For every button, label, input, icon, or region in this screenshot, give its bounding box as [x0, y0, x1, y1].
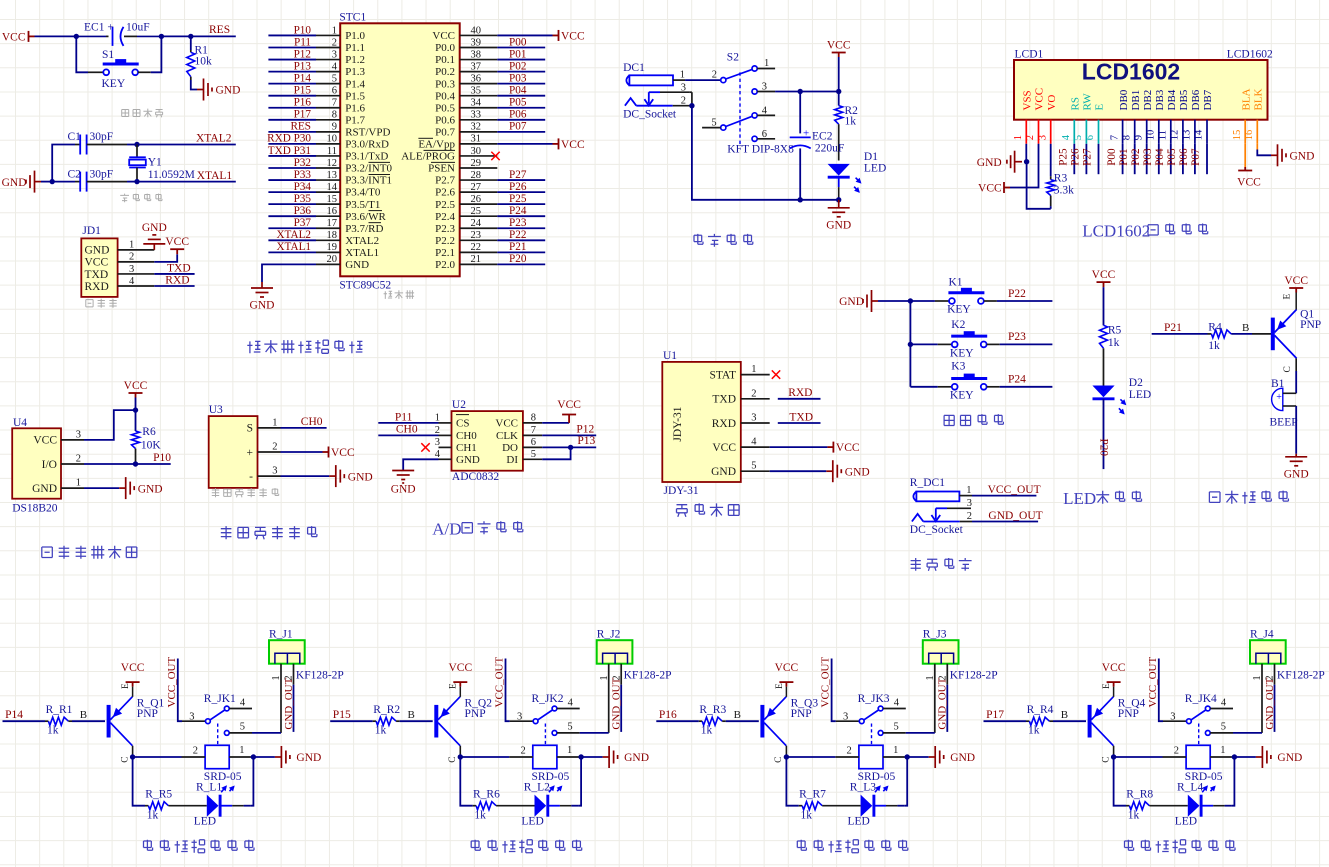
net label P06 [497, 119, 545, 121]
svg-text:GND_OUT: GND_OUT [283, 677, 295, 729]
svg-text:DC1: DC1 [623, 62, 645, 74]
svg-text:GND_OUT: GND_OUT [937, 677, 949, 729]
pin 29 PSEN [460, 167, 498, 169]
svg-text:R_L3: R_L3 [850, 782, 876, 794]
svg-text:B: B [734, 709, 741, 721]
svg-text:R_J1: R_J1 [269, 628, 293, 640]
switch K3 KEY [910, 386, 937, 388]
svg-text:R_JK2: R_JK2 [532, 693, 564, 705]
svg-text:+: + [1276, 392, 1282, 403]
pin 3 CH1 [439, 446, 452, 448]
svg-text:P2.2: P2.2 [435, 235, 455, 247]
pin 1 VSS [1025, 120, 1027, 144]
svg-text:PNP: PNP [791, 708, 812, 720]
svg-text:P07: P07 [1190, 148, 1202, 166]
svg-text:KF128-2P: KF128-2P [1277, 670, 1325, 682]
svg-text:VCC: VCC [124, 380, 148, 392]
net label P34 [268, 191, 316, 193]
svg-text:GND: GND [250, 300, 275, 312]
pin 30 ALE/PROG [460, 155, 498, 157]
svg-text:P3.1/TxD: P3.1/TxD [345, 151, 388, 163]
pin 2 TXD [741, 398, 770, 400]
net label P33 [268, 179, 316, 181]
svg-text:5: 5 [1073, 135, 1084, 140]
wire [154, 254, 177, 262]
svg-text:TXD: TXD [85, 269, 109, 281]
wire [579, 756, 603, 758]
svg-text:VO: VO [1046, 95, 1058, 111]
svg-text:1: 1 [76, 478, 81, 489]
svg-text:GND_OUT: GND_OUT [611, 677, 623, 729]
svg-text:1: 1 [599, 675, 610, 680]
ground [191, 80, 197, 90]
net label VCC_OUT [506, 659, 510, 722]
svg-text:P11: P11 [395, 412, 413, 424]
pin 2 [293, 664, 295, 685]
net label P04 [497, 95, 545, 97]
net label GND_OUT [620, 685, 622, 732]
svg-text:21: 21 [471, 254, 482, 265]
svg-text:PNP: PNP [1300, 319, 1321, 331]
svg-text:B1: B1 [1271, 378, 1285, 390]
svg-text:4: 4 [332, 61, 338, 72]
svg-text:CS: CS [456, 418, 469, 430]
svg-text:8: 8 [332, 110, 337, 121]
wire VSS rail [1025, 144, 1027, 162]
svg-text:DO: DO [502, 442, 518, 454]
svg-text:P2.1: P2.1 [435, 247, 455, 259]
svg-text:14: 14 [327, 182, 338, 193]
svg-text:4: 4 [1061, 134, 1072, 140]
svg-text:P23: P23 [509, 217, 527, 229]
wire [1295, 358, 1297, 371]
net label P14 [268, 83, 316, 85]
svg-text:P10: P10 [153, 452, 171, 464]
wire [878, 300, 910, 302]
svg-text:7: 7 [531, 425, 536, 436]
svg-text:RES: RES [290, 121, 311, 133]
pin 4 VCC [741, 446, 770, 448]
svg-text:6: 6 [531, 437, 536, 448]
title 蜂鸣器电路 [1209, 491, 1288, 504]
svg-text:13: 13 [1182, 130, 1193, 141]
svg-text:P05: P05 [1166, 148, 1178, 166]
svg-text:BLA: BLA [1240, 88, 1252, 110]
node junction [836, 89, 841, 94]
svg-text:CH0: CH0 [396, 424, 418, 436]
svg-text:P24: P24 [509, 205, 527, 217]
pin 13 DB6 [1194, 120, 1196, 144]
svg-text:C: C [120, 756, 130, 762]
svg-text:U4: U4 [13, 417, 27, 429]
svg-text:3: 3 [751, 413, 756, 424]
wire [786, 757, 798, 806]
pin 1 [959, 495, 972, 497]
wire [252, 732, 281, 734]
diode D1 LED [828, 164, 850, 176]
net label GND_OUT [972, 521, 1038, 523]
wire [692, 106, 839, 200]
svg-text:1k: 1k [375, 725, 387, 737]
svg-text:P32: P32 [294, 157, 311, 169]
svg-text:5: 5 [1221, 722, 1226, 733]
ic U4 DS18B20 [12, 428, 61, 498]
svg-text:12: 12 [327, 158, 338, 169]
svg-text:BLK: BLK [1253, 88, 1265, 110]
pin 3 P1.2 [316, 59, 340, 61]
svg-text:GND: GND [826, 219, 851, 231]
svg-text:DI: DI [506, 454, 518, 466]
svg-text:VCC: VCC [1034, 88, 1046, 111]
svg-text:DB7: DB7 [1202, 89, 1214, 110]
pin 9 RST/VPD [316, 131, 340, 133]
net label P24 [497, 215, 545, 217]
node junction [134, 142, 139, 147]
svg-text:R_JK1: R_JK1 [204, 693, 236, 705]
net label P22 [997, 300, 1053, 302]
svg-text:P1.1: P1.1 [345, 42, 365, 54]
title 土壤湿度检测 [221, 526, 317, 539]
wire [1295, 406, 1297, 454]
svg-text:P15: P15 [294, 85, 312, 97]
wire [35, 35, 77, 37]
net label P00 [1122, 144, 1124, 174]
power VCC [1004, 182, 1010, 193]
svg-text:VCC: VCC [775, 662, 799, 674]
svg-text:CH0: CH0 [301, 416, 323, 428]
node junction [251, 754, 256, 759]
wire GND pin20 [262, 264, 316, 282]
svg-text:R_JK3: R_JK3 [858, 693, 890, 705]
net label P26 [497, 191, 545, 193]
svg-text:VCC_OUT: VCC_OUT [494, 656, 506, 707]
svg-text:3: 3 [1037, 135, 1048, 140]
pin 37 P0.2 [460, 71, 498, 73]
net label P10 [84, 463, 171, 465]
svg-text:1: 1 [893, 745, 898, 756]
svg-text:4: 4 [894, 698, 900, 709]
svg-text:P06: P06 [509, 109, 527, 121]
node junction [798, 197, 803, 202]
node junction [1232, 754, 1237, 759]
svg-text:VCC: VCC [1237, 177, 1261, 189]
node junction [159, 34, 164, 39]
svg-text:VCC: VCC [1092, 269, 1116, 281]
pin 2 [946, 664, 948, 685]
svg-text:1k: 1k [845, 116, 857, 128]
svg-text:5: 5 [332, 73, 337, 84]
connector DC1 DC_Socket [625, 75, 673, 105]
svg-text:P25: P25 [1058, 148, 1070, 166]
pin 22 P2.1 [460, 251, 498, 253]
svg-text:RXD: RXD [788, 387, 812, 399]
pin 5 RW [1085, 120, 1087, 144]
svg-text:3: 3 [76, 429, 81, 440]
net label XTAL1 [268, 251, 316, 253]
svg-text:CH1: CH1 [456, 442, 477, 454]
svg-text:28: 28 [471, 170, 482, 181]
svg-text:6: 6 [332, 86, 337, 97]
node junction [908, 298, 913, 303]
svg-text:C: C [1283, 366, 1293, 372]
pin 9 DB2 [1146, 120, 1148, 144]
wire [1053, 720, 1086, 722]
svg-text:R_R5: R_R5 [145, 788, 172, 800]
pin 4 RS [1073, 120, 1075, 144]
svg-text:DB3: DB3 [1154, 89, 1166, 110]
svg-text:P0.5: P0.5 [435, 102, 455, 114]
wire [874, 805, 886, 807]
svg-text:32: 32 [471, 122, 482, 133]
svg-text:VCC_OUT: VCC_OUT [820, 656, 832, 707]
net label P10 [268, 34, 316, 36]
transistor R_Q4 PNP [1090, 697, 1114, 746]
svg-text:30pF: 30pF [90, 131, 114, 143]
svg-text:P16: P16 [294, 97, 312, 109]
svg-text:VCC: VCC [448, 662, 472, 674]
wire [542, 447, 570, 459]
relay coil SRD-05 [533, 745, 557, 768]
svg-text:P07: P07 [509, 121, 527, 133]
svg-text:VCC: VCC [978, 183, 1002, 195]
svg-text:R4: R4 [1208, 322, 1222, 334]
svg-text:GND: GND [296, 752, 321, 764]
wire [838, 177, 840, 187]
node junction [1024, 159, 1029, 164]
svg-text:2: 2 [847, 746, 852, 757]
svg-text:15: 15 [327, 194, 338, 205]
pin 10 DB3 [1158, 120, 1160, 144]
svg-text:VSS: VSS [1022, 90, 1034, 110]
net label CH0 [281, 427, 327, 429]
svg-text:U2: U2 [452, 399, 466, 411]
pin 10 P3.0/RxD [316, 143, 340, 145]
pin 35 P0.4 [460, 95, 498, 97]
svg-text:P02: P02 [509, 60, 526, 72]
no connect pin30 [491, 152, 499, 160]
svg-text:16: 16 [327, 206, 338, 217]
svg-text:1: 1 [332, 25, 337, 36]
title 继电器控制电路 [471, 840, 582, 853]
power VCC [453, 682, 467, 687]
pin 3 - [258, 475, 281, 477]
svg-text:GND: GND [845, 466, 870, 478]
svg-text:25: 25 [471, 206, 482, 217]
wire [133, 756, 182, 758]
pin 11 P3.1/TxD [316, 155, 340, 157]
svg-text:P3.2/INT0: P3.2/INT0 [345, 163, 392, 175]
svg-text:VCC: VCC [1284, 275, 1308, 287]
pin 25 P2.4 [460, 215, 498, 217]
svg-text:1k: 1k [147, 810, 159, 822]
svg-text:3: 3 [681, 82, 686, 93]
net label VCC_OUT [1159, 659, 1163, 722]
svg-text:4: 4 [568, 698, 574, 709]
svg-text:R_J3: R_J3 [923, 628, 947, 640]
pin 3 VO [1050, 120, 1052, 144]
connector R_J3 KF128-2P [923, 640, 959, 664]
svg-text:VCC: VCC [712, 442, 736, 454]
svg-text:30pF: 30pF [90, 169, 114, 181]
net label P12 [268, 59, 316, 61]
net label VCC_OUT [178, 659, 182, 722]
wire [1103, 287, 1105, 325]
pin 1 [1261, 664, 1263, 733]
pin 5 DI [523, 458, 542, 460]
wire [1114, 756, 1163, 758]
pin 3 VCC [61, 439, 84, 441]
label 下载口 [86, 299, 117, 308]
net label P06 [1194, 144, 1196, 174]
power VCC [1097, 282, 1111, 287]
pin 32 P0.7 [460, 131, 498, 133]
svg-text:R_R1: R_R1 [46, 704, 73, 716]
svg-text:JDY-31: JDY-31 [672, 406, 684, 441]
net label P36 [268, 215, 316, 217]
svg-text:1k: 1k [1028, 725, 1040, 737]
pin 23 P2.2 [460, 239, 498, 241]
svg-text:KEY: KEY [102, 78, 126, 90]
svg-text:3: 3 [1170, 712, 1175, 723]
node junction [1111, 754, 1116, 759]
svg-text:E: E [775, 683, 785, 689]
wire [785, 746, 787, 757]
svg-text:15: 15 [1232, 130, 1243, 141]
svg-text:13: 13 [327, 170, 338, 181]
svg-text:JDY-31: JDY-31 [664, 485, 699, 497]
svg-text:P1.7: P1.7 [345, 114, 365, 126]
net label GND_OUT [1274, 685, 1276, 732]
power VCC [129, 393, 143, 398]
svg-text:XTAL2: XTAL2 [196, 133, 232, 145]
connector R_DC1 DC_Socket [912, 492, 960, 522]
connector R_J4 KF128-2P [1250, 640, 1286, 664]
svg-text:P3.7/RD: P3.7/RD [345, 223, 383, 235]
pin 2 P1.1 [316, 47, 340, 49]
svg-text:KEY: KEY [950, 390, 974, 402]
node junction [133, 407, 138, 412]
svg-text:P27: P27 [1082, 148, 1094, 166]
svg-text:1: 1 [129, 240, 134, 251]
title 外部电源 [911, 558, 972, 571]
svg-text:R3: R3 [1054, 173, 1068, 185]
svg-text:R_DC1: R_DC1 [910, 477, 945, 489]
capacitor C2 [52, 181, 75, 183]
wire [84, 410, 136, 440]
wire [133, 757, 145, 806]
pin 15 BLA [1244, 120, 1246, 144]
net label P05 [497, 107, 545, 109]
svg-text:VCC: VCC [495, 418, 518, 430]
svg-text:P1.0: P1.0 [345, 30, 365, 42]
transistor R_Q2 PNP [436, 697, 460, 746]
svg-text:19: 19 [327, 242, 338, 253]
svg-text:GND: GND [348, 471, 373, 483]
svg-text:PSEN: PSEN [428, 163, 455, 175]
svg-text:VCC: VCC [432, 30, 455, 42]
svg-text:S1: S1 [102, 49, 114, 61]
wire [135, 398, 137, 411]
svg-text:2: 2 [193, 746, 198, 757]
svg-text:C2: C2 [68, 169, 82, 181]
node junction [188, 34, 193, 39]
svg-text:P1.3: P1.3 [345, 66, 365, 78]
pin 14 DB7 [1206, 120, 1208, 144]
ground [143, 235, 165, 250]
svg-text:10: 10 [1146, 130, 1157, 141]
svg-text:P1.6: P1.6 [345, 102, 365, 114]
svg-text:U3: U3 [209, 404, 223, 416]
node junction [130, 754, 135, 759]
net label P25 [1073, 144, 1075, 174]
net label VCC_OUT [972, 495, 1036, 497]
wire [905, 756, 929, 758]
wire BLA VCC [1244, 144, 1246, 167]
diode R_L4 LED [1188, 795, 1200, 817]
net label TXD P31 [268, 155, 316, 157]
svg-text:VCC: VCC [121, 662, 145, 674]
node junction [908, 342, 913, 347]
svg-text:K1: K1 [949, 277, 963, 289]
ground [770, 470, 827, 472]
svg-text:KF128-2P: KF128-2P [624, 670, 672, 682]
wire [1114, 757, 1126, 806]
svg-text:P16: P16 [659, 709, 677, 721]
ground [1285, 454, 1307, 466]
resistor R_R6 [473, 805, 476, 807]
svg-text:PNP: PNP [1118, 708, 1139, 720]
svg-text:PNP: PNP [137, 708, 158, 720]
ground [26, 171, 41, 193]
connector R_J2 KF128-2P [597, 640, 633, 664]
net label P15 [330, 720, 373, 722]
svg-text:JD1: JD1 [82, 225, 101, 237]
svg-text:P26: P26 [509, 181, 527, 193]
svg-text:GND: GND [138, 483, 163, 495]
pin 4 RXD [118, 285, 155, 287]
pin 2 VCC [1038, 120, 1040, 144]
svg-text:LED: LED [521, 816, 543, 828]
svg-text:P22: P22 [509, 229, 526, 241]
svg-text:P10: P10 [294, 24, 312, 36]
svg-text:2: 2 [967, 511, 972, 522]
svg-text:P11: P11 [294, 36, 311, 48]
svg-text:TXD: TXD [712, 394, 736, 406]
net label P21 [497, 251, 545, 253]
svg-text:1: 1 [271, 675, 282, 680]
net label P02 [1146, 144, 1148, 174]
svg-text:GND: GND [142, 222, 167, 234]
svg-text:P05: P05 [509, 97, 527, 109]
svg-text:18: 18 [327, 230, 338, 241]
svg-text:XTAL2: XTAL2 [276, 229, 311, 241]
wire [775, 91, 839, 93]
relay coil SRD-05 [1186, 745, 1210, 768]
pin 7 CLK [523, 434, 542, 436]
svg-text:2: 2 [76, 454, 81, 465]
svg-text:10k: 10k [195, 56, 213, 68]
svg-text:RES: RES [209, 24, 230, 36]
wire [548, 805, 560, 807]
svg-text:S: S [247, 423, 253, 435]
pin 5 GND [741, 470, 770, 472]
pin 2 [960, 521, 972, 523]
net label RXD [778, 398, 821, 400]
pin 5 P1.4 [316, 83, 340, 85]
net label P16 [268, 107, 316, 109]
transistor R_Q3 PNP [762, 697, 786, 746]
svg-text:P3.3/INT1: P3.3/INT1 [345, 175, 392, 187]
